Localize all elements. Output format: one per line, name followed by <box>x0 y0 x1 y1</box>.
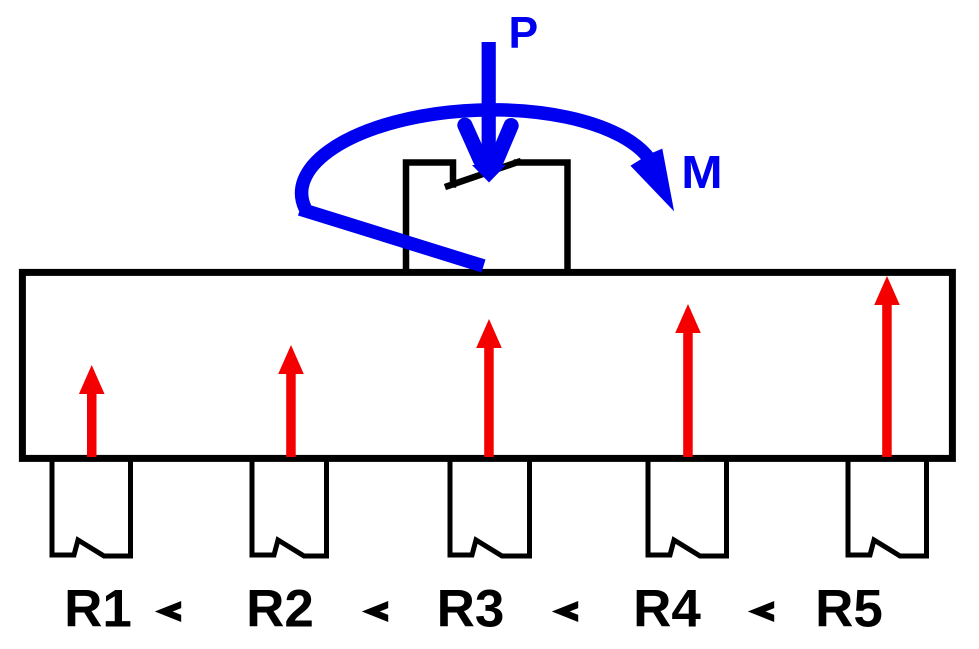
svg-text:R4: R4 <box>633 580 701 639</box>
red reaction arrow R1 <box>79 365 105 457</box>
pile 2 <box>252 458 327 556</box>
moment M: straight tail <box>300 209 484 266</box>
pile 5 <box>848 458 927 556</box>
svg-text:P: P <box>509 9 539 58</box>
moment M: curved arc <box>302 110 650 208</box>
svg-text:R3: R3 <box>437 580 505 639</box>
svg-text:M: M <box>681 148 722 199</box>
pile cap rectangle <box>22 272 952 458</box>
load arrow P: tip <box>472 165 506 183</box>
red reaction arrow R3 <box>476 319 502 457</box>
column with break symbol on top <box>406 162 568 272</box>
svg-text:R5: R5 <box>815 580 883 639</box>
less-than sign 3 <box>552 601 578 622</box>
svg-text:R2: R2 <box>246 580 314 639</box>
load arrow P (blue, vertical): shaft <box>465 42 511 170</box>
moment M: arrowhead <box>630 149 674 212</box>
pile 4 <box>648 458 727 556</box>
less-than sign 4 <box>748 601 774 622</box>
bottom labels R1 < R2 < R3 < R4 < R5 <box>64 580 883 639</box>
red reaction arrow R5 <box>874 276 900 457</box>
red reaction arrow R4 <box>675 304 701 457</box>
svg-text:R1: R1 <box>64 580 132 639</box>
pile 1 <box>52 458 131 556</box>
red reaction arrow R2 <box>278 345 304 457</box>
less-than sign 1 <box>155 601 181 622</box>
less-than sign 2 <box>362 601 388 622</box>
pile 3 <box>450 458 530 556</box>
